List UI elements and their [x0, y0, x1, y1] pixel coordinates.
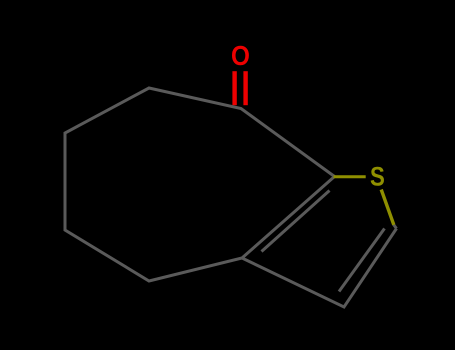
svg-text:O: O: [231, 40, 250, 72]
thiophene bonds B-C3' and C3'-C2': [242, 229, 397, 308]
C=O double bond (red): [232, 71, 236, 105]
seven-membered ring with fusion bond: A-K-V1-V2-V3-V4-B-A: [65, 88, 335, 281]
thiophene double bond C2'=C3' inner line: [339, 229, 385, 292]
bond S-C2' (olive, diagonal): [381, 190, 394, 225]
bond A-S (olive, horizontal): [334, 175, 366, 178]
gray stub connecting olive S-C2' bond to C2' vertex: [394, 225, 397, 229]
fusion double bond A=B inner line (inside thiophene): [262, 191, 330, 252]
svg-text:S: S: [370, 163, 385, 192]
